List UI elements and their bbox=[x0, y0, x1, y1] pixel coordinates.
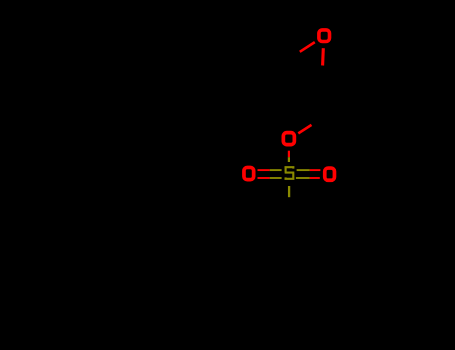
wire: bond O2-S (sulfur half, olive) bbox=[288, 157, 290, 162]
wire: S=O left double bond upper line (sulfur half olive) bbox=[270, 169, 282, 171]
wire: S=O right double bond lower line (sulfur half olive) bbox=[296, 177, 310, 179]
wire: S=O right double bond upper line (oxygen half red) bbox=[310, 169, 321, 171]
ester oxygen O2 label bbox=[283, 133, 294, 145]
wire: S=O right double bond upper line (sulfur half olive) bbox=[297, 169, 310, 171]
wire: bond O2-S (oxygen half, red) bbox=[288, 151, 290, 158]
wire: bond S-C(aryl) (sulfur half, olive) bbox=[288, 186, 290, 197]
wire: S=O right double bond lower line (oxygen half red) bbox=[310, 177, 320, 179]
wire: bond O1-C3 (oxygen half, red) bbox=[321, 48, 325, 65]
right sulfonyl oxygen O4 label bbox=[325, 168, 335, 180]
epoxide oxygen O1 label bbox=[319, 30, 330, 42]
sulfur S label bbox=[285, 166, 295, 179]
wire: S=O left double bond lower line (sulfur half olive) bbox=[270, 177, 282, 179]
wire: S=O left double bond upper line (oxygen half red) bbox=[258, 169, 270, 171]
left sulfonyl oxygen O3 label bbox=[244, 167, 254, 179]
wire: S=O left double bond lower line (oxygen half red) bbox=[258, 177, 270, 179]
wire: bond C4-O2 (oxygen half, red) bbox=[298, 125, 311, 133]
wire: bond O1-C2 (oxygen half, red) bbox=[300, 42, 315, 52]
